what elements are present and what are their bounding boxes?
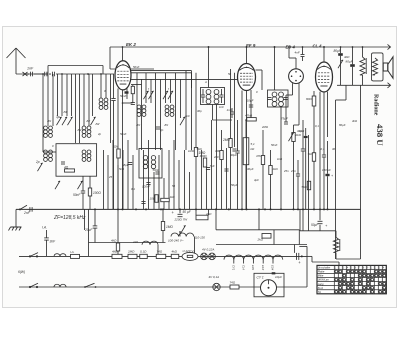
wire right low <box>336 258 361 260</box>
node line y120 <box>245 119 247 121</box>
svg-text:1kΩ: 1kΩ <box>170 195 176 199</box>
svg-text:0,1Ω: 0,1Ω <box>140 250 147 254</box>
svg-text:438 U: 438 U <box>375 124 385 146</box>
svg-text:50µF: 50µF <box>311 223 319 227</box>
svg-text:25n: 25n <box>290 169 296 173</box>
diode cap 75p <box>281 117 288 125</box>
psu verticals <box>158 233 195 256</box>
hum cap <box>296 160 300 209</box>
wire to plug <box>294 245 296 253</box>
EF9 top wire <box>246 46 248 63</box>
cap 4nF ED4 <box>295 47 305 61</box>
barretter U220 <box>182 249 198 261</box>
IFT2 secondary <box>279 92 284 106</box>
mains switch <box>338 60 343 68</box>
svg-text:220Ω 7W: 220Ω 7W <box>174 218 189 222</box>
svg-text:50nF: 50nF <box>120 94 127 98</box>
motor CY1 <box>257 276 277 296</box>
row1 to table <box>307 256 339 265</box>
wire osc section <box>43 124 56 152</box>
svg-text:80Ω: 80Ω <box>306 97 312 101</box>
svg-text:30µF: 30µF <box>230 153 237 157</box>
trimmer C-T2 <box>62 117 67 125</box>
svg-text:5kΩ: 5kΩ <box>197 147 203 151</box>
svg-text:50nF: 50nF <box>73 193 81 197</box>
tube EK2 <box>115 61 131 90</box>
svg-text:CY1: CY1 <box>232 265 236 271</box>
svg-text:2nF: 2nF <box>213 155 219 159</box>
row2 switch <box>29 283 38 288</box>
label 25n <box>290 169 296 173</box>
trimmer C-T1 <box>56 117 61 125</box>
svg-text:50nF: 50nF <box>153 168 160 172</box>
resistor 1k mid <box>161 195 176 202</box>
label 6W <box>18 270 25 274</box>
switch S-ant <box>23 72 28 76</box>
EK2 top cap <box>122 47 124 61</box>
cap 7nF <box>206 164 215 170</box>
row1 labels <box>112 250 178 254</box>
svg-text:JW: JW <box>164 123 168 127</box>
arrow end bus <box>388 44 391 49</box>
IFT2 cap 2 <box>284 98 288 100</box>
misc tiny labels <box>47 65 358 191</box>
switch psu <box>179 225 185 233</box>
switch K3 <box>163 91 168 99</box>
IFT1 top feed <box>208 46 210 87</box>
svg-text:2p: 2p <box>159 128 164 132</box>
EF9 grid cap <box>227 108 235 118</box>
capacitor 2nF <box>23 207 32 215</box>
cap 100nF <box>142 183 151 189</box>
svg-text:32k: 32k <box>113 145 118 149</box>
label 100-240 <box>168 239 184 243</box>
HT top bus <box>110 46 391 48</box>
svg-text:2nF: 2nF <box>23 211 31 215</box>
cap 50uF+ <box>172 209 192 216</box>
resistor 32k <box>113 145 120 159</box>
resistor 1M AVC <box>194 148 206 157</box>
svg-text:0,1: 0,1 <box>131 187 135 191</box>
svg-text:50nF: 50nF <box>271 143 278 147</box>
row1 R 74 <box>156 254 166 258</box>
label 220ohm <box>174 218 189 222</box>
ecap 100uF <box>322 141 333 209</box>
motor frame <box>254 273 284 297</box>
row1 wire <box>19 255 307 257</box>
svg-text:4kΩ: 4kΩ <box>172 250 178 254</box>
ED4 top wire <box>288 46 296 69</box>
CL4 pins <box>320 92 328 210</box>
svg-text:80µF: 80µF <box>339 123 346 127</box>
EF9 anode resistor <box>245 114 256 122</box>
top bus dots <box>122 46 364 48</box>
ecap 1k node <box>299 128 308 209</box>
cap 20uF <box>84 209 97 242</box>
svg-text:Umschalter: Umschalter <box>318 267 331 270</box>
ground symbol <box>9 227 22 231</box>
cap 8uF <box>124 163 133 168</box>
svg-text:100 µF: 100 µF <box>322 168 331 172</box>
svg-text:2p: 2p <box>35 160 40 164</box>
IFT1 tuning cap 1 <box>201 89 205 103</box>
padder 2p <box>156 127 164 132</box>
svg-text:30k: 30k <box>215 149 220 153</box>
svg-text:6(W): 6(W) <box>18 270 25 274</box>
switch K1 <box>143 91 148 99</box>
cap 50uF b <box>311 209 328 230</box>
row2 R74 <box>230 280 240 289</box>
svg-text:10Ω: 10Ω <box>150 197 156 201</box>
AF secondary <box>151 156 155 169</box>
trimmer C-T3 <box>67 117 72 125</box>
EK2 pins <box>118 89 127 210</box>
svg-text:4Ω: 4Ω <box>64 166 69 170</box>
svg-text:50nF: 50nF <box>120 132 127 136</box>
svg-text:I.A.: I.A. <box>70 250 75 254</box>
output choke 2 <box>333 231 339 259</box>
IFT1 bottom wire <box>216 105 218 210</box>
screen bus y69 <box>110 47 154 70</box>
IFT1 frame <box>201 88 225 105</box>
svg-text:Mitte: Mitte <box>318 274 324 278</box>
EK2 screen cap <box>111 74 115 209</box>
dial lamp 2 <box>209 253 216 260</box>
svg-text:3p: 3p <box>56 115 60 119</box>
svg-text:100-240 V~: 100-240 V~ <box>168 239 184 243</box>
svg-text:EF 9: EF 9 <box>246 43 256 48</box>
AF primary <box>143 156 147 169</box>
svg-text:50: 50 <box>228 72 232 76</box>
resistor 1k2 <box>269 150 279 209</box>
svg-text:30p: 30p <box>197 109 202 113</box>
svg-text:25n: 25n <box>283 169 289 173</box>
ground drop <box>15 209 17 227</box>
heater winding <box>224 255 283 260</box>
svg-text:0,1: 0,1 <box>315 124 319 128</box>
svg-text:ED4: ED4 <box>271 265 275 271</box>
svg-text:110-130: 110-130 <box>195 236 206 240</box>
IFT1 secondary <box>214 90 219 104</box>
svg-text:80µF: 80µF <box>334 49 342 53</box>
ED4 load wire <box>286 95 293 122</box>
capacitor 100p AVC <box>232 149 236 151</box>
svg-text:ZF=128,5 kHz: ZF=128,5 kHz <box>53 215 86 221</box>
svg-text:5kΩ: 5kΩ <box>119 167 125 171</box>
capacitor osc pad <box>61 162 65 164</box>
label 30p b <box>297 129 302 133</box>
svg-text:8µF: 8µF <box>124 163 129 167</box>
tap labels <box>232 265 275 271</box>
wire to EK2 grid <box>56 73 114 75</box>
svg-text:1nF: 1nF <box>27 67 34 71</box>
label 1nF <box>27 67 34 71</box>
antenna <box>7 48 26 74</box>
svg-text:5kΩ: 5kΩ <box>302 185 308 189</box>
svg-text:100nF: 100nF <box>142 185 150 189</box>
wire antenna input <box>16 73 43 75</box>
svg-text:30p: 30p <box>297 129 302 133</box>
resistor 4ohm <box>64 166 75 173</box>
antenna coil Lb <box>44 150 53 161</box>
node A2 <box>61 73 102 75</box>
speaker <box>383 57 393 78</box>
svg-text:74Ω: 74Ω <box>230 280 236 284</box>
IFT2 top feed <box>274 46 276 90</box>
resistor 4k psu2 <box>111 209 120 256</box>
output transformer <box>372 53 384 81</box>
svg-text:UKW/Lan: UKW/Lan <box>318 278 330 282</box>
row1 R 01 <box>140 254 148 258</box>
osc verticals <box>137 71 192 150</box>
svg-text:CL 4: CL 4 <box>313 44 323 49</box>
svg-text:50nF: 50nF <box>133 65 140 69</box>
svg-text:25: 25 <box>108 175 113 179</box>
svg-text:2kΩ: 2kΩ <box>295 133 302 137</box>
trimmer C-T7 <box>77 181 82 189</box>
svg-text:+: + <box>331 174 333 178</box>
dropper taps <box>171 233 205 239</box>
resistor 7k right <box>308 152 316 161</box>
svg-text:CY 1: CY 1 <box>257 276 264 280</box>
svg-text:3nF: 3nF <box>50 240 57 244</box>
ecap 80uF b <box>346 47 355 85</box>
svg-text:4kΩ: 4kΩ <box>111 239 117 243</box>
label ZF <box>53 215 86 221</box>
CL4 top wire <box>323 46 325 62</box>
choke tap2 <box>132 240 158 245</box>
svg-text:80µF: 80µF <box>346 60 354 64</box>
svg-text:Lang: Lang <box>318 282 324 286</box>
switch K2 <box>148 91 153 99</box>
svg-text:30µF: 30µF <box>247 167 254 171</box>
IFT1 tuning cap 2 <box>220 89 224 103</box>
resistor 400 <box>200 154 208 167</box>
row1 plug <box>297 253 303 265</box>
label EF9 <box>246 43 256 48</box>
EF9 anode link <box>256 70 263 90</box>
filter choke <box>360 47 366 85</box>
svg-text:2MΩ: 2MΩ <box>261 125 269 129</box>
trimmer C-T4 <box>90 117 95 125</box>
label 4k psu <box>344 55 350 59</box>
svg-text:100Ω: 100Ω <box>93 191 101 195</box>
wire y230 <box>300 209 336 230</box>
label 5k <box>197 147 203 151</box>
HT dropper <box>243 120 249 209</box>
svg-text:A: A <box>204 80 207 84</box>
switch inlet <box>19 205 27 210</box>
svg-text:74Ω: 74Ω <box>157 250 163 254</box>
label dropper <box>251 142 256 151</box>
label CL4 <box>313 44 323 49</box>
row link v <box>306 256 308 287</box>
speaker return wire <box>337 83 391 88</box>
mid junction comb <box>104 120 227 209</box>
svg-text:1MΩ: 1MΩ <box>166 225 173 229</box>
svg-text:U 220 V~: U 220 V~ <box>183 249 196 253</box>
AF transformer box <box>139 149 162 179</box>
IFT2 bottom <box>280 107 282 209</box>
CL4 grid cap <box>321 92 327 209</box>
chassis bus <box>16 208 361 210</box>
svg-text:10µF: 10µF <box>275 275 282 279</box>
trimmer C-T5 <box>37 163 42 171</box>
label 30p <box>35 110 101 164</box>
coil L2a <box>82 126 91 137</box>
tuning bank verticals <box>43 74 111 143</box>
capacitor C2 <box>45 72 47 77</box>
svg-text:4nF: 4nF <box>185 114 190 118</box>
valve table <box>317 265 386 293</box>
IFT2 frame <box>268 90 289 107</box>
capacitor 1nF <box>27 72 32 77</box>
row1 R 4k2 <box>171 254 179 258</box>
svg-text:TA: TA <box>318 290 321 294</box>
resistor 2M AVC <box>222 138 232 148</box>
label IA <box>42 226 47 238</box>
svg-text:Radione: Radione <box>373 94 379 116</box>
EK2 anode wire <box>131 79 238 84</box>
tube CL4 <box>316 62 333 92</box>
row1 R 4k <box>112 254 122 258</box>
label EK2 <box>126 42 136 47</box>
resistor 100ohm <box>88 176 101 209</box>
svg-text:50 µF: 50 µF <box>183 210 192 214</box>
row1 coil <box>54 254 66 257</box>
motor cap 10uF <box>272 272 282 279</box>
svg-text:10µF: 10µF <box>247 99 254 103</box>
row2 coil <box>54 284 66 287</box>
switch K4 <box>168 91 173 99</box>
svg-text:7nF: 7nF <box>210 164 215 168</box>
svg-text:EF9: EF9 <box>251 265 255 270</box>
dial lamp 1 <box>201 253 208 260</box>
svg-text:4µF: 4µF <box>254 178 259 182</box>
AVC wire 3 <box>234 73 236 147</box>
svg-text:1nF: 1nF <box>227 108 232 112</box>
IFT1 sec out <box>213 105 233 121</box>
osc coil L6 <box>165 105 174 116</box>
node EK2 bottom <box>122 102 133 104</box>
row1 R 2M <box>128 254 137 258</box>
svg-text:2MΩ: 2MΩ <box>222 138 230 142</box>
tube EF9 <box>238 64 256 91</box>
svg-text:400Ω: 400Ω <box>200 154 208 158</box>
svg-text:47k: 47k <box>256 154 261 158</box>
svg-text:75µF: 75µF <box>281 117 288 121</box>
row1 fuse <box>70 250 80 259</box>
svg-text:220: 220 <box>132 240 138 244</box>
wire y246 right <box>299 246 307 256</box>
svg-text:EK 2: EK 2 <box>126 42 136 47</box>
IFT1 primary <box>206 90 211 104</box>
cap 5n right <box>301 120 305 231</box>
resistor 10ohm <box>150 195 159 203</box>
svg-text:Kurz: Kurz <box>318 286 324 290</box>
osc coil L5 <box>137 105 146 116</box>
EF9 grid wire <box>237 77 239 79</box>
EF9 screen cap <box>247 99 254 108</box>
rail right v2 <box>336 85 347 259</box>
row2 wire <box>19 286 307 288</box>
tube ED4 <box>289 69 304 84</box>
resistor 1M psu <box>161 209 173 242</box>
svg-text:4V 0,1A: 4V 0,1A <box>209 275 220 279</box>
svg-text:5,1: 5,1 <box>251 142 256 146</box>
svg-text:CL4: CL4 <box>241 265 245 270</box>
cap 30uF <box>230 120 240 209</box>
cap 3nF <box>44 238 56 257</box>
wire y229 <box>216 209 299 229</box>
input box top <box>48 66 103 75</box>
svg-text:4kΩ: 4kΩ <box>112 250 118 254</box>
label row2 lamp <box>209 275 220 279</box>
wire 308 right <box>308 135 310 231</box>
svg-text:47kΩ: 47kΩ <box>245 114 253 118</box>
svg-text:2p: 2p <box>97 132 102 136</box>
svg-text:ED 4: ED 4 <box>286 45 296 50</box>
table text <box>318 267 385 294</box>
svg-text:50µF: 50µF <box>231 183 238 187</box>
osc grid pair <box>130 71 192 88</box>
cap 50nF low <box>141 202 145 204</box>
ED4 pins down <box>293 83 300 125</box>
antenna coil La <box>44 126 53 137</box>
trimmer C-T8 <box>180 117 185 125</box>
row2 interlock <box>84 283 96 288</box>
label ED4 <box>286 45 296 50</box>
wire y244 <box>216 230 307 245</box>
IFT2 primary <box>272 92 277 106</box>
svg-text:1nF: 1nF <box>219 105 224 109</box>
svg-text:30: 30 <box>332 147 336 151</box>
volume pot 2k <box>288 125 301 209</box>
wire y242 <box>85 209 166 256</box>
capacitor C3 <box>49 72 54 77</box>
trimmer C-T6 <box>55 181 60 189</box>
cap mid 2 <box>224 169 228 171</box>
model 438 U <box>375 124 385 146</box>
svg-text:EK2: EK2 <box>261 265 265 271</box>
svg-text:50: 50 <box>172 184 176 188</box>
svg-text:0,1: 0,1 <box>321 147 325 151</box>
bandswitch frame <box>56 144 97 177</box>
svg-text:4kΩ: 4kΩ <box>344 55 350 59</box>
bus junction dots <box>94 208 329 210</box>
svg-text:4nF: 4nF <box>295 51 300 55</box>
CL4 cath resistor <box>306 91 316 209</box>
resistor 5k right <box>302 181 311 190</box>
EF9 pins <box>242 90 251 209</box>
AVC wire 2 <box>230 69 232 209</box>
wire input <box>34 73 48 75</box>
resistor 47k b <box>256 130 265 209</box>
ecap 80uF a <box>334 47 343 85</box>
svg-text:2kΩ: 2kΩ <box>257 238 264 242</box>
svg-text:Platte: Platte <box>318 270 325 274</box>
rail right v1 <box>360 85 362 259</box>
label lamps1 <box>202 248 214 252</box>
svg-text:1kΩ: 1kΩ <box>273 167 279 171</box>
heater taps <box>234 259 273 263</box>
svg-text:1kΩ: 1kΩ <box>277 157 283 161</box>
brand Radione <box>373 94 379 116</box>
resistor 2k low <box>257 230 275 245</box>
svg-text:1MΩ: 1MΩ <box>188 149 195 153</box>
svg-text:2MΩ: 2MΩ <box>127 250 135 254</box>
svg-text:JW: JW <box>47 119 51 123</box>
